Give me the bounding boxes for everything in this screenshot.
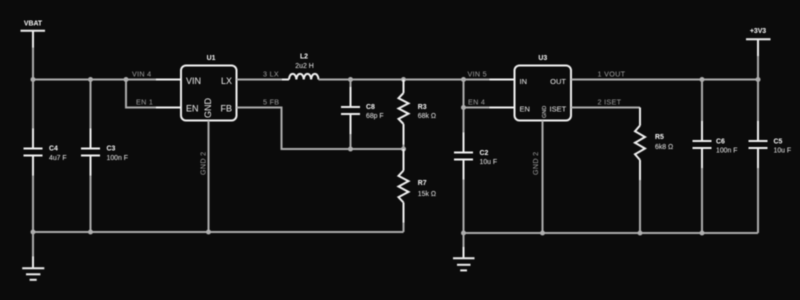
resistor R5	[635, 126, 673, 234]
capacitor C3	[81, 80, 128, 233]
svg-text:3 LX: 3 LX	[263, 69, 279, 78]
svg-text:68p F: 68p F	[366, 113, 384, 120]
resistor R3	[399, 80, 436, 150]
node junction R5 bottom	[638, 231, 643, 236]
svg-text:C2: C2	[480, 150, 489, 157]
svg-text:GND: GND	[203, 98, 213, 119]
svg-text:U1: U1	[207, 55, 216, 62]
svg-text:EN 4: EN 4	[468, 97, 485, 106]
node junction C6 bottom	[700, 231, 705, 236]
node junction gnd/C4	[31, 230, 36, 235]
node junction VBAT/C4	[31, 77, 36, 82]
svg-text:EN 1: EN 1	[136, 97, 153, 106]
svg-text:ISET: ISET	[550, 104, 567, 113]
node junction U3 GND bottom	[540, 231, 545, 236]
svg-text:2u2 H: 2u2 H	[295, 63, 313, 70]
svg-text:4u7 F: 4u7 F	[49, 155, 67, 162]
svg-text:L2: L2	[300, 54, 308, 61]
wire VIN5/EN4 branch vertical	[463, 80, 465, 108]
node junction C8 bottom	[348, 147, 353, 152]
node junction EN4/C2	[461, 105, 466, 110]
resistor R7	[399, 149, 436, 232]
wire FB net	[237, 108, 404, 150]
node junction EN1 branch	[124, 77, 129, 82]
node junction U1 GND bottom	[206, 230, 211, 235]
capacitor C6	[693, 80, 738, 234]
svg-text:FB: FB	[220, 103, 232, 113]
svg-text:C3: C3	[107, 146, 116, 153]
capacitor C8	[341, 80, 384, 150]
svg-text:C5: C5	[774, 138, 783, 145]
svg-text:VBAT: VBAT	[24, 21, 43, 28]
inductor L2	[282, 54, 326, 80]
node junction +3V3/C5	[756, 77, 761, 82]
svg-text:EN: EN	[186, 103, 199, 113]
svg-text:VIN 4: VIN 4	[132, 69, 151, 78]
wire bottom-right ground rail	[464, 232, 759, 234]
wire GND pin U1 to rail	[208, 121, 210, 233]
svg-text:LX: LX	[221, 76, 232, 86]
wire L2 to U3 IN	[319, 79, 515, 81]
op-amp U1 (IC box)	[156, 55, 262, 147]
node junction R3/R7	[401, 147, 406, 152]
node junction C3 top	[88, 77, 93, 82]
node junction C3 bottom	[88, 230, 93, 235]
pin stubs U3	[490, 79, 515, 81]
node junction C6 top	[700, 77, 705, 82]
wire bottom-left ground rail	[33, 231, 404, 233]
svg-text:GND: GND	[542, 106, 548, 118]
svg-text:100n F: 100n F	[716, 147, 737, 154]
capacitor C2	[454, 108, 497, 234]
svg-text:2 ISET: 2 ISET	[598, 97, 622, 106]
svg-text:5 FB: 5 FB	[263, 97, 279, 106]
svg-text:R7: R7	[418, 180, 427, 187]
svg-text:VIN: VIN	[186, 76, 201, 86]
node junction C8 top	[348, 77, 353, 82]
svg-text:6k8 Ω: 6k8 Ω	[655, 144, 673, 151]
svg-text:100n F: 100n F	[107, 155, 128, 162]
svg-text:GND 2: GND 2	[199, 152, 208, 175]
svg-text:R5: R5	[655, 134, 664, 141]
svg-text:IN: IN	[520, 77, 528, 86]
svg-text:C4: C4	[49, 146, 58, 153]
node junction R3 top	[401, 77, 406, 82]
wire GND pin U3 to rail	[542, 121, 544, 234]
svg-text:U3: U3	[538, 55, 547, 62]
capacitor C4	[24, 80, 67, 233]
wire EN4 to U3	[464, 107, 515, 109]
svg-text:C6: C6	[716, 138, 725, 145]
svg-text:GND 2: GND 2	[531, 152, 540, 175]
wire LX to L2	[237, 79, 290, 81]
svg-text:1 VOUT: 1 VOUT	[598, 69, 626, 78]
wire +3V3 vertical	[757, 39, 759, 79]
power +3V3	[746, 28, 771, 39]
node junction VIN5/EN4 branch	[461, 77, 466, 82]
svg-text:10u F: 10u F	[480, 159, 498, 166]
svg-text:C8: C8	[366, 104, 375, 111]
capacitor C5	[749, 80, 792, 234]
wire VBAT vertical	[32, 31, 34, 80]
svg-text:R3: R3	[418, 104, 427, 111]
wire top rail left (VBAT to U1 VIN)	[33, 79, 181, 81]
pin stubs U1	[156, 79, 181, 81]
node junction gnd/C2 bottom	[461, 231, 466, 236]
ground (left)	[22, 232, 44, 280]
wire ISET to R5	[571, 107, 640, 109]
ground (right)	[453, 233, 475, 270]
svg-text:+3V3: +3V3	[750, 28, 766, 35]
svg-text:15k Ω: 15k Ω	[418, 191, 436, 198]
wire OUT rail	[571, 79, 758, 81]
svg-text:OUT: OUT	[550, 77, 566, 86]
op-amp U3 (IC box)	[490, 55, 597, 148]
svg-text:EN: EN	[520, 104, 530, 113]
svg-text:68k Ω: 68k Ω	[418, 113, 436, 120]
svg-text:VIN 5: VIN 5	[468, 69, 487, 78]
wire EN1 branch	[126, 80, 181, 108]
svg-text:10u F: 10u F	[774, 147, 792, 154]
power VBAT	[21, 21, 46, 31]
